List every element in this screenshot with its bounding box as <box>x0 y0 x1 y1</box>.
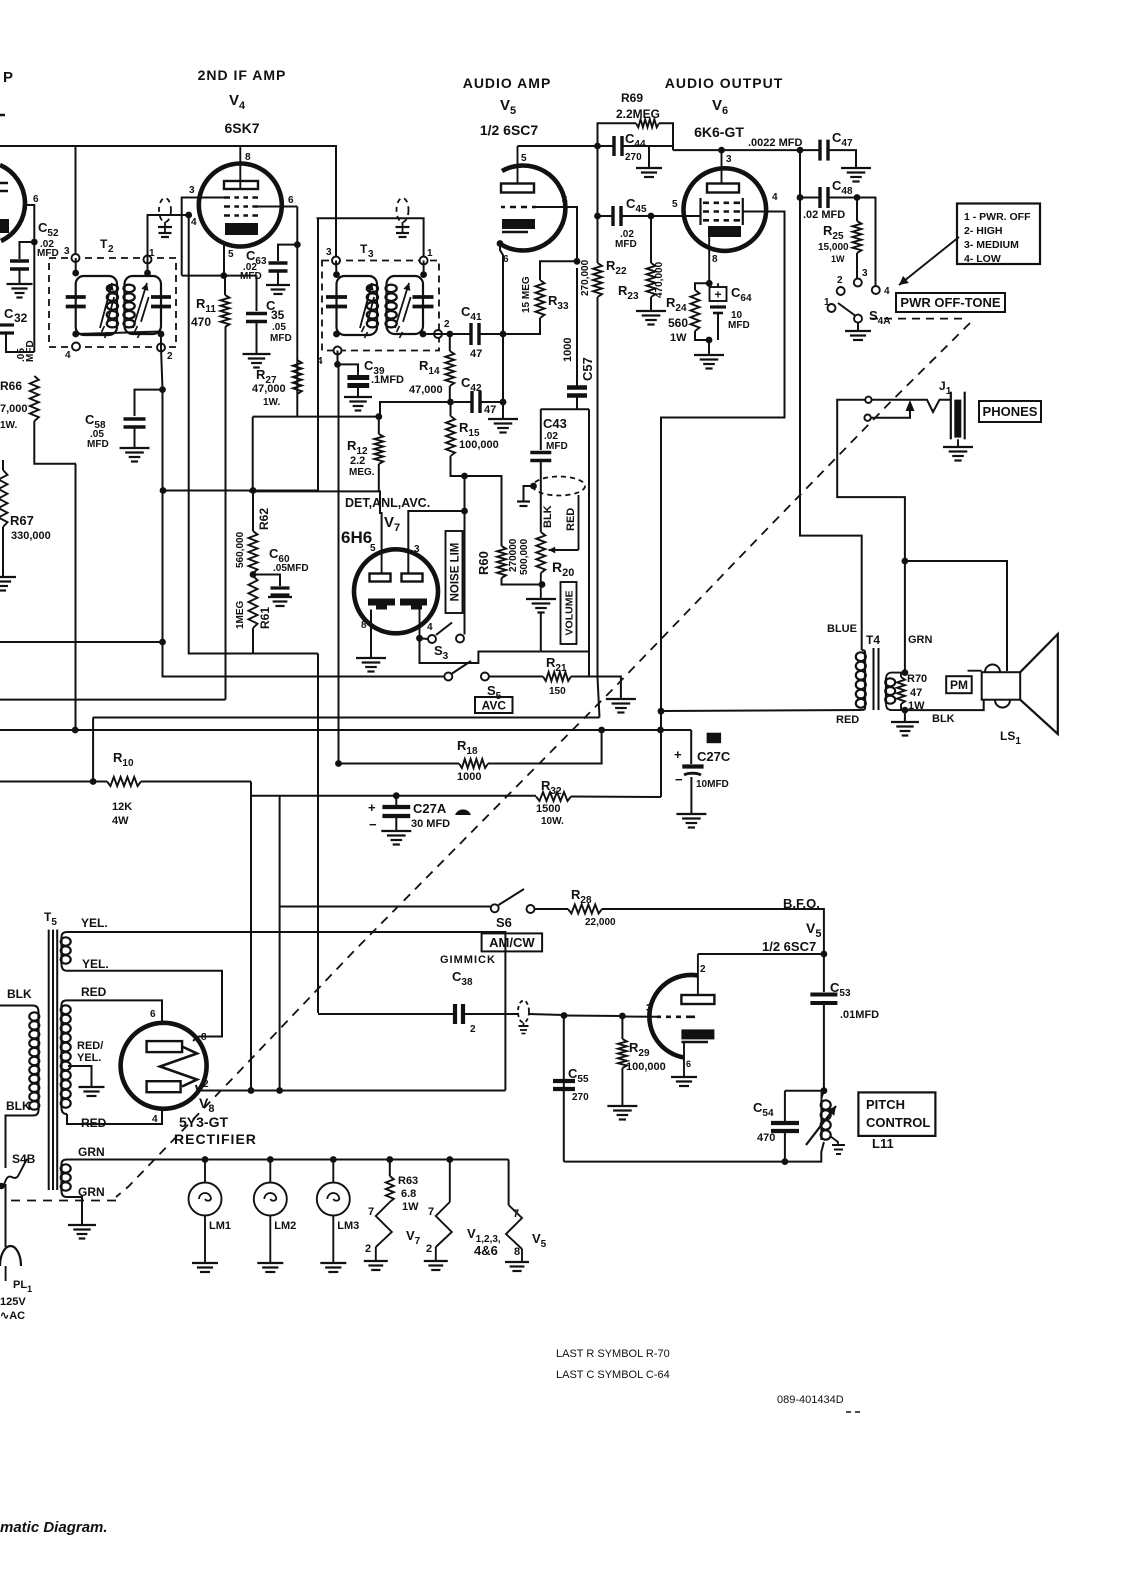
wire to LS1 voice coil <box>905 561 1007 671</box>
wire T2 right tank to terminal 2 <box>160 334 162 348</box>
svg-text:150: 150 <box>549 686 566 697</box>
capacitor C47 <box>820 140 828 161</box>
node V6 plate <box>718 147 725 154</box>
jack J1 break contact upper <box>865 397 871 403</box>
ground (C63) <box>266 285 290 294</box>
svg-text:matic Diagram.: matic Diagram. <box>0 1519 108 1536</box>
label AC <box>0 1310 25 1322</box>
svg-text:15 MEG: 15 MEG <box>521 276 532 313</box>
heater stub V7 <box>364 1202 421 1270</box>
wire top to T3 terminal 1 <box>317 218 424 260</box>
label R70 47 1W <box>907 673 927 712</box>
pin 4 label (T2) <box>65 350 71 361</box>
jack J1 tip contact lower <box>864 415 870 421</box>
wire S4A to ground <box>857 323 859 330</box>
wire <box>598 145 615 147</box>
label C60 .05MFD <box>269 546 309 574</box>
svg-text:RED/: RED/ <box>77 1040 103 1052</box>
wire B+ line D left <box>251 795 396 797</box>
label R67 330,000 <box>10 513 51 542</box>
svg-text:2.2: 2.2 <box>350 455 365 467</box>
wire T2-2 line down <box>162 390 164 642</box>
svg-text:1 - PWR. OFF: 1 - PWR. OFF <box>964 211 1031 223</box>
tank body T3 left <box>337 276 378 335</box>
node R60 tap <box>461 473 468 480</box>
svg-text:P: P <box>3 69 13 86</box>
node C58 tap <box>159 386 166 393</box>
svg-text:PM: PM <box>950 678 968 692</box>
node T4 secondary top <box>902 669 909 676</box>
node T3 terminal 4 lead <box>334 361 341 368</box>
ground (R23) <box>636 311 666 325</box>
svg-text:R60: R60 <box>476 551 491 575</box>
switch S4B squiggle <box>4 1159 27 1185</box>
wire to ground <box>708 340 710 354</box>
wire R14 bottom <box>449 386 451 402</box>
svg-text:2: 2 <box>470 1024 476 1035</box>
resistor R27 <box>293 360 302 394</box>
wire C45 right <box>621 215 651 217</box>
wire to C27A <box>395 796 397 805</box>
ground (V5 cathode) <box>488 419 518 433</box>
wire BLK upper lead <box>0 1005 33 1007</box>
label LS1 <box>1000 729 1021 747</box>
wire R33 top <box>540 261 577 280</box>
ground (C47) <box>841 168 871 182</box>
wire V4 pin3 down <box>182 198 224 276</box>
label V4 <box>229 92 246 112</box>
svg-text:VOLUME: VOLUME <box>564 591 576 636</box>
svg-text:3: 3 <box>862 268 868 279</box>
tube V6 6K6-GT (audio output) <box>684 168 767 251</box>
ground (C44) <box>636 168 662 177</box>
node V7 pin3 junction <box>461 508 468 515</box>
wire to R33 <box>503 318 540 334</box>
coil T2 left (tuned winding) <box>107 285 118 328</box>
svg-text:+: + <box>714 288 721 302</box>
pin 3 label (V6) <box>726 154 732 165</box>
label R15 100,000 <box>459 420 499 451</box>
wire V5 grid to R33 node <box>536 207 577 261</box>
transformer T3 (dashed shield box) <box>322 261 439 351</box>
svg-text:1W.: 1W. <box>263 397 280 408</box>
svg-text:6.8: 6.8 <box>401 1188 416 1200</box>
ground (R20) <box>526 599 556 613</box>
svg-text:7: 7 <box>513 1208 519 1220</box>
svg-text:5: 5 <box>370 543 376 554</box>
resistor R67 (partial) <box>0 470 8 527</box>
label S4A <box>869 308 890 327</box>
svg-text:8: 8 <box>712 254 718 265</box>
svg-text:1000: 1000 <box>457 771 481 783</box>
wire tank top rail <box>785 1090 824 1092</box>
label R14 47,000 <box>409 358 443 396</box>
label R21 150 <box>546 655 567 697</box>
svg-text:AM/CW: AM/CW <box>489 935 535 950</box>
wire RED lower to V8 pin 4 <box>67 1111 162 1124</box>
svg-text:.01MFD: .01MFD <box>840 1009 879 1021</box>
node C41/V5 cathode <box>500 331 507 338</box>
node C27A <box>393 792 400 799</box>
wire GRN lower to ground <box>67 1197 82 1224</box>
label C47 <box>832 130 853 149</box>
node R18 rise <box>598 727 605 734</box>
label B.F.O. <box>783 896 820 911</box>
svg-text:4: 4 <box>562 195 568 206</box>
wire to S3 <box>420 637 429 640</box>
svg-text:2: 2 <box>108 244 114 255</box>
wire C47 to ground <box>828 150 856 167</box>
capacitor C54 <box>771 1123 799 1131</box>
svg-text:7: 7 <box>428 1206 434 1218</box>
wire S6 riser (B+) <box>279 796 281 1091</box>
wire R32 right <box>571 796 661 799</box>
label 15 MEG rotated <box>521 276 532 313</box>
svg-text:4&6: 4&6 <box>474 1243 498 1258</box>
wire <box>93 781 107 783</box>
label C43 .02 MFD <box>543 416 568 452</box>
label 560,000 rotated <box>235 531 246 568</box>
ground (C35) <box>243 354 271 368</box>
tank body T2 right <box>125 276 162 334</box>
wire jack line with V notch <box>872 400 951 412</box>
svg-text:+: + <box>368 800 376 815</box>
label C63 .02 MFD <box>240 248 267 282</box>
pin 2 label (T2) <box>167 351 173 362</box>
svg-text:470: 470 <box>757 1132 775 1144</box>
svg-text:.05MFD: .05MFD <box>273 563 309 574</box>
label RED lower <box>81 1116 107 1130</box>
svg-text:BLK: BLK <box>542 505 554 528</box>
wire C44 ground stub <box>648 147 650 167</box>
svg-text:2: 2 <box>167 351 173 362</box>
svg-text:C: C <box>4 306 14 321</box>
wire GRN down to T4 secondary <box>904 561 906 673</box>
tuning arrow T3 right <box>395 283 411 338</box>
wire loop left through BLK <box>540 461 542 533</box>
svg-text:RECTIFIER: RECTIFIER <box>174 1131 257 1147</box>
lamp LM2 <box>269 1160 271 1184</box>
switch S5 contact a <box>444 673 452 681</box>
svg-text:8: 8 <box>514 1246 520 1258</box>
wire V6 pin8 (cathode) <box>708 237 710 283</box>
switch S4A blade <box>838 303 855 316</box>
label box PM <box>946 676 972 693</box>
potentiometer R20 wiper arrow <box>549 547 579 554</box>
label C54 470 <box>753 1100 775 1144</box>
wire center tap <box>68 1066 92 1086</box>
svg-text:560,000: 560,000 <box>235 531 246 568</box>
capacitor C60 <box>271 588 290 595</box>
terminal 2 (T2) <box>157 344 165 352</box>
mark left edge <box>0 114 5 117</box>
svg-text:2ND IF AMP: 2ND IF AMP <box>198 67 287 83</box>
node R62 top <box>250 487 257 494</box>
capacitor C32 (partial at edge) <box>0 325 14 333</box>
wire R28 to BFO plate line <box>602 909 824 954</box>
resistor R66 <box>30 376 39 421</box>
wire T2 terminal1 to V4 grid <box>148 215 189 260</box>
capacitor C35 <box>246 314 267 322</box>
label R60 rotated <box>476 551 491 575</box>
svg-text:BLK: BLK <box>932 713 955 725</box>
ground (R29) <box>607 1106 637 1120</box>
node speaker tee <box>902 558 909 565</box>
wire V7 pin8 (cathode) to ground <box>370 610 372 659</box>
label R32 1500 10W <box>536 778 564 827</box>
wire to C54 <box>784 1091 786 1121</box>
wire B+ bus <box>0 729 691 731</box>
svg-text:2- HIGH: 2- HIGH <box>964 225 1003 237</box>
svg-text:MFD: MFD <box>87 439 109 450</box>
variable inductor L11 (pitch control) <box>820 1100 822 1140</box>
wire C57 to loop top <box>576 398 578 410</box>
svg-text:LM1: LM1 <box>209 1220 231 1232</box>
wire H1 to left edge <box>0 641 163 643</box>
svg-text:10MFD: 10MFD <box>696 779 729 790</box>
label box PWR OFF-TONE <box>896 293 1005 312</box>
tank body T3 right <box>387 276 424 334</box>
svg-text:47: 47 <box>470 348 482 360</box>
svg-text:LAST C SYMBOL C-64: LAST C SYMBOL C-64 <box>556 1369 670 1381</box>
label RECTIFIER <box>174 1131 257 1147</box>
svg-text:1W.: 1W. <box>0 420 17 431</box>
svg-text:1W: 1W <box>831 254 845 264</box>
wire to C35 <box>256 276 258 311</box>
wire top-left bus to T2 terminal 3 <box>0 146 76 258</box>
svg-text:+: + <box>674 747 682 762</box>
wire cathode node horizontal <box>182 275 257 277</box>
node screen/T4RED <box>658 708 665 715</box>
contact 3 label <box>862 268 868 279</box>
node C45 left <box>594 213 601 220</box>
wire V6 pin4 (screen) long route <box>661 212 785 732</box>
svg-text:LM2: LM2 <box>274 1220 296 1232</box>
wire T2 terminal1 stub <box>147 260 149 277</box>
wire R18 left <box>339 763 460 765</box>
svg-text:MFD: MFD <box>270 333 292 344</box>
svg-text:4: 4 <box>65 350 71 361</box>
pin 6 label (V3) <box>33 194 39 205</box>
label RED (T4) <box>836 714 859 726</box>
label BLK lower <box>6 1099 31 1113</box>
svg-text:YEL.: YEL. <box>82 957 109 971</box>
note LAST R SYMBOL R-70 <box>556 1348 670 1360</box>
svg-text:1: 1 <box>824 297 830 308</box>
svg-text:8: 8 <box>201 1032 207 1043</box>
svg-text:L11: L11 <box>872 1136 894 1151</box>
pin 5 label (V7) <box>370 543 376 554</box>
svg-text:BLK: BLK <box>6 1099 31 1113</box>
wire C53 to tank <box>823 1003 825 1091</box>
lamp LM1 <box>204 1160 206 1184</box>
svg-text:500,000: 500,000 <box>519 538 530 575</box>
wire T3-4 long vertical to R18 line <box>338 364 340 763</box>
label 10MFD <box>696 779 729 790</box>
coil T4 secondary with R70 <box>886 673 905 679</box>
wire C52 node down to R66 <box>33 242 35 352</box>
wire to R11 <box>224 276 226 295</box>
label 270000 rotated <box>508 538 519 572</box>
wire T4 primary RED side <box>661 710 862 711</box>
node B+ bus / screen line <box>657 727 664 734</box>
wire BFO plate to C53 <box>698 953 824 955</box>
capacitor C53 <box>810 995 837 1004</box>
node C55/grid line <box>561 1012 568 1019</box>
wire to C52 <box>20 242 35 259</box>
node AVC bus left end <box>160 487 167 494</box>
coil T3 right <box>386 285 397 328</box>
ground (phone jack) <box>943 447 973 461</box>
svg-text:NOISE LIM: NOISE LIM <box>450 543 462 602</box>
switch S4A contact 4 <box>872 286 880 294</box>
wire to ground <box>904 710 906 721</box>
label RED rotated <box>565 508 577 531</box>
resistor R12 <box>374 434 383 464</box>
label 6SK7 <box>224 120 259 136</box>
svg-text:6: 6 <box>33 194 39 205</box>
terminal 2 (T3) <box>434 330 442 338</box>
wire C53 top <box>823 954 825 992</box>
label V8 <box>199 1095 214 1115</box>
wire S5 to R21 <box>489 676 543 678</box>
node V6 cathode <box>706 280 713 287</box>
tuning arrow T3 left <box>360 283 374 338</box>
wire BLK lower to S4B <box>6 1116 34 1169</box>
resistor R29 <box>618 1039 627 1068</box>
label 6H6 <box>341 528 372 547</box>
wire V6 plate line to T4 primary (BLUE) <box>800 198 862 651</box>
wire R18 right riser <box>488 730 602 764</box>
tube V8 5Y3-GT rectifier <box>121 1023 207 1109</box>
pin 2 label (V8) <box>203 1079 209 1090</box>
svg-text:4: 4 <box>884 286 890 297</box>
potentiometer R20 element <box>536 532 545 573</box>
svg-text:1000: 1000 <box>562 338 574 362</box>
capacitor T2 right tank <box>151 297 171 307</box>
wire R22 bottom down to bus line-A <box>598 297 600 718</box>
pin 8 label (V7) <box>361 620 367 631</box>
wire wiper to RED lead <box>578 495 580 550</box>
svg-text:AUDIO AMP: AUDIO AMP <box>463 75 552 91</box>
wire YEL lower to V8 pin 8 <box>67 971 222 1037</box>
svg-text:LAST R SYMBOL R-70: LAST R SYMBOL R-70 <box>556 1348 670 1360</box>
wire C32 to R66 top <box>6 333 34 352</box>
terminal 1 (T2) <box>144 256 152 264</box>
svg-text:100,000: 100,000 <box>459 439 499 451</box>
label R66 47,000 1W (cut) <box>0 379 28 431</box>
svg-text:PITCH: PITCH <box>866 1097 905 1112</box>
label GRN lower <box>78 1185 105 1199</box>
speaker LS1 <box>982 672 1021 700</box>
wire R12 node left <box>253 416 379 418</box>
svg-text:∿AC: ∿AC <box>0 1310 25 1322</box>
wire R32 riser to B+ bus <box>660 732 662 798</box>
label R23 <box>618 283 639 302</box>
ground (C39) <box>344 397 372 411</box>
label R20 <box>552 559 574 579</box>
label 1MEG rotated <box>235 600 246 629</box>
pin 1 label (T3) <box>427 248 433 259</box>
pin 3 label (T2) <box>64 246 70 257</box>
wire C55 column <box>563 1016 565 1162</box>
svg-text:560: 560 <box>668 316 688 330</box>
wire to R62 <box>252 491 254 532</box>
switch S5 blade <box>452 661 471 674</box>
pin 1 label (T2) <box>149 248 155 259</box>
wire V3 pin6 down to C52 node <box>25 205 34 242</box>
wire T2-2 down <box>161 348 163 390</box>
label 2ND IF AMP <box>198 67 287 83</box>
ground (BFO cathode) <box>671 1077 697 1086</box>
tube V5 1/2 6SC7 (BFO, half envelope) <box>649 975 698 1058</box>
terminal 4 (T2) <box>72 343 80 351</box>
wire V5 grid line down to C57 <box>576 268 578 386</box>
tube V3 (partial, cut off at left edge) <box>0 165 25 241</box>
svg-text:3: 3 <box>368 249 374 260</box>
pin 5 label (V6) <box>672 199 678 210</box>
svg-text:3: 3 <box>189 185 195 196</box>
wire V5 cathode down <box>500 244 503 335</box>
label S6 <box>496 915 512 930</box>
svg-text:470,000: 470,000 <box>654 261 665 298</box>
svg-text:10W.: 10W. <box>541 816 564 827</box>
svg-text:T4: T4 <box>866 633 880 647</box>
label C52 .02 MFD <box>37 220 59 259</box>
label C32 <box>4 306 28 325</box>
svg-text:5: 5 <box>521 153 527 164</box>
label C41 47 <box>461 304 482 360</box>
wire C39 to ground <box>357 388 359 397</box>
svg-text:8: 8 <box>245 152 251 163</box>
svg-text:4: 4 <box>152 1114 158 1125</box>
label box NOISE LIM <box>446 531 463 613</box>
svg-text:.1MFD: .1MFD <box>371 374 404 386</box>
label R69 2.2MEG <box>616 91 660 121</box>
resistor R23 <box>647 263 656 297</box>
svg-text:47: 47 <box>484 404 496 416</box>
svg-text:.05: .05 <box>272 322 286 333</box>
label 500,000 rotated <box>519 538 530 575</box>
shield capacitor (T2 grid lead) <box>158 198 172 237</box>
capacitor C42 <box>472 391 480 413</box>
label R63 6.8 1W <box>398 1175 419 1213</box>
resistor R69 <box>636 119 659 127</box>
pin 6 label (V8) <box>150 1009 156 1020</box>
ground (R24/C64) <box>694 355 724 369</box>
node C48/R25 <box>854 194 861 201</box>
svg-text:2: 2 <box>426 1243 432 1255</box>
node C53 top <box>821 951 828 958</box>
pin 4 label (T3) <box>317 356 323 367</box>
terminal 3 (T3) <box>332 257 340 265</box>
label C27C <box>697 749 731 764</box>
wire V6 plate line <box>673 149 800 151</box>
capacitor C63 <box>269 263 288 271</box>
wire tank bottom rail <box>564 1161 785 1163</box>
node C42/ground leg <box>500 399 507 406</box>
label C38 <box>452 969 473 988</box>
node C48 <box>797 194 804 201</box>
label GIMMICK <box>440 954 496 966</box>
wire pin8 into tube <box>193 1037 198 1042</box>
wire V4 grid return to AVC rail <box>189 215 318 654</box>
label R29 100,000 <box>626 1040 666 1073</box>
wire R12 bottom line to V7 pin5 <box>249 491 382 548</box>
switch S4A contact 1 <box>824 297 836 312</box>
pin 3 label (T3) <box>326 247 332 258</box>
wire R60 bottom to R20 node <box>502 578 543 585</box>
